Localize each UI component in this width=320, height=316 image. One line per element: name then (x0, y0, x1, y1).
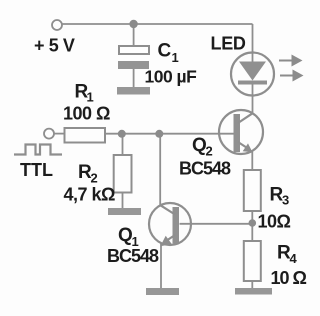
wire C1 top drop (133, 24, 135, 47)
svg-text:100 Ω: 100 Ω (63, 104, 110, 124)
node A junction (118, 130, 126, 138)
ground under Q1 emitter (146, 288, 179, 295)
svg-text:100 µF: 100 µF (145, 67, 198, 87)
resistor R3 (244, 170, 261, 211)
TTL pulse waveform (14, 145, 62, 155)
wire Q1 base to node C (180, 223, 253, 225)
wire R2 to ground (122, 192, 124, 209)
svg-text:1: 1 (172, 50, 179, 65)
svg-text:4,7 kΩ: 4,7 kΩ (64, 185, 116, 205)
wire LED cathode to Q2 collector (252, 95, 254, 114)
wire node A to R2 (122, 134, 124, 156)
wire C1 to ground (133, 69, 135, 88)
svg-text:10Ω: 10Ω (258, 212, 291, 232)
wire LED branch drop (252, 24, 254, 53)
wire TTL terminal to R1 (54, 133, 65, 135)
svg-text:TTL: TTL (20, 160, 53, 180)
resistor R1 (65, 128, 106, 143)
svg-text:+ 5 V: + 5 V (34, 36, 75, 56)
wire R1 through node A and node B to Q2 base (105, 133, 234, 135)
wire top rail from +5V terminal to LED branch (61, 23, 253, 25)
wire node B to Q1 collector (159, 134, 161, 206)
transistor Q2 BC548 (219, 110, 263, 154)
resistor R2 (114, 155, 132, 193)
resistor R4 (244, 241, 261, 281)
svg-text:2: 2 (91, 171, 98, 186)
wire R3 to node C (251, 211, 253, 224)
wire R4 to ground (251, 281, 253, 290)
svg-text:4: 4 (290, 251, 298, 266)
node C junction (R3/R4) (249, 219, 257, 227)
svg-text:BC548: BC548 (107, 246, 159, 266)
svg-text:LED: LED (211, 34, 246, 54)
svg-text:C: C (158, 41, 172, 62)
LED D1 (231, 53, 274, 96)
ground under R2 (108, 208, 141, 215)
node junction top (C1 tap) (129, 20, 137, 28)
capacitor C1 bottom plate (118, 61, 149, 69)
wire Q1 emitter to ground (160, 244, 162, 290)
light emission arrow 2 (280, 70, 304, 82)
svg-text:10 Ω: 10 Ω (271, 268, 307, 288)
transistor Q1 BC548 (149, 203, 191, 246)
capacitor C1 top plate (119, 46, 149, 54)
svg-text:2: 2 (206, 144, 213, 159)
wire Q2 emitter to R3 (251, 151, 253, 171)
terminal +5V (52, 20, 62, 30)
terminal TTL input (44, 129, 54, 139)
node B junction (155, 130, 163, 138)
ground under R4 (235, 288, 272, 295)
svg-text:1: 1 (87, 90, 94, 105)
svg-text:3: 3 (282, 193, 289, 208)
wire node C to R4 (251, 223, 253, 242)
svg-text:BC548: BC548 (179, 159, 231, 179)
ground under C1 (117, 87, 150, 95)
light emission arrow 1 (279, 55, 303, 67)
